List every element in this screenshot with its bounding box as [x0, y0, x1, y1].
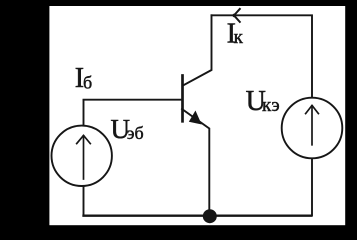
svg-text:кэ: кэ — [262, 95, 280, 116]
svg-text:к: к — [234, 27, 244, 48]
svg-text:эб: эб — [127, 123, 144, 143]
svg-text:б: б — [83, 73, 92, 93]
